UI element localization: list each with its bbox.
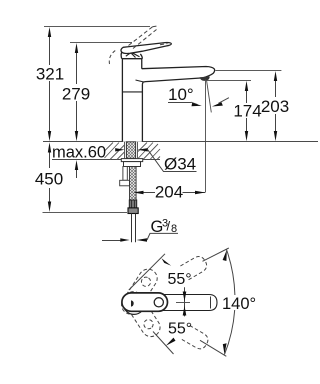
svg-text:55°: 55°: [168, 271, 192, 288]
dimension 174 vertical line: [246, 91, 248, 132]
dimension 204 line: [143, 192, 205, 194]
svg-text:140°: 140°: [222, 295, 256, 313]
connection tube: [132, 214, 136, 243]
140 arc top radial line: [203, 248, 229, 261]
dimension 203 arrows: [274, 71, 277, 141]
faucet body outline: [122, 59, 142, 142]
140 arc: [227, 250, 235, 296]
dimension 321 vertical line: [49, 36, 51, 132]
svg-text:450: 450: [35, 170, 63, 189]
140 arc bottom arrow: [223, 343, 227, 354]
counter hatching right: [138, 143, 160, 160]
dimension 203 vertical line: [275, 81, 277, 132]
hole edges: [124, 142, 137, 159]
hose end nut: [128, 208, 138, 214]
mounting stud: [123, 167, 127, 181]
top view: dashed handle rotated down 55: [121, 288, 164, 340]
svg-text:10°: 10°: [168, 85, 194, 104]
svg-text:279: 279: [62, 85, 90, 104]
top view: lever: [122, 293, 168, 311]
stud foot: [120, 180, 130, 186]
flexible hose: [130, 167, 137, 201]
dash near blade tip: [160, 44, 168, 45]
svg-text:Ø34: Ø34: [164, 154, 196, 173]
hose end extension line: [43, 212, 128, 214]
55 upper tangent line: [129, 254, 165, 290]
dimension 279 arrows: [75, 43, 78, 141]
water stream vertical extension line: [205, 80, 207, 193]
top view: spout tube inner cap line: [210, 297, 212, 309]
svg-text:204: 204: [155, 183, 183, 202]
10 deg leader left arrow: [191, 102, 198, 104]
mounting nut: [124, 162, 141, 167]
svg-text:174: 174: [233, 102, 261, 121]
dimension 174 arrows: [245, 81, 248, 141]
diameter 34 arrows: [115, 148, 148, 151]
counter hatching left: [105, 143, 125, 160]
top view: lever dome circle: [154, 298, 163, 307]
203 extension line from spout tip: [216, 70, 282, 72]
svg-text:55°: 55°: [168, 321, 192, 338]
140 arc top arrow: [223, 250, 227, 261]
faucet body fill: [122, 59, 214, 142]
spout outline: [142, 67, 215, 85]
faucet body joint line: [122, 91, 142, 93]
svg-text:8: 8: [171, 223, 177, 235]
140 arc bottom radial line: [200, 340, 226, 356]
top view: dashed spout end rotated up: [180, 254, 209, 280]
top view: spout tube: [140, 295, 217, 311]
dimension 450 arrows: [48, 142, 51, 212]
G 3/8 dimension arrows: [102, 240, 121, 242]
dimension 204 arrows: [133, 191, 205, 194]
dimension 279 vertical line: [76, 52, 78, 132]
svg-text:321: 321: [36, 65, 64, 84]
55 upper arrow: [162, 258, 172, 266]
top view: dashed handle rotated up 55: [118, 266, 161, 318]
hose end fitting: [129, 200, 136, 208]
counter top line: [43, 141, 318, 143]
55 lower tangent line: [153, 332, 174, 355]
svg-text:/: /: [167, 219, 171, 234]
spout bottom transition line: [136, 80, 144, 82]
55 vertical reference line with arrows: [184, 287, 186, 316]
dimension 279 top extension line: [70, 42, 132, 44]
55 lower arrow: [166, 338, 176, 346]
aerator: [200, 77, 210, 81]
mounting washer: [121, 159, 142, 162]
svg-text:203: 203: [261, 97, 289, 116]
diameter 34 leader: [148, 150, 197, 172]
top view: dashed spout end rotated down: [182, 325, 211, 351]
top view: body circle: [123, 293, 145, 315]
10 deg right arrow: [218, 98, 229, 104]
lever raised dashed: [129, 26, 158, 49]
shank through counter: [126, 142, 135, 159]
max.60 up arrow below counter: [75, 160, 78, 170]
top view: dark tick on body: [131, 300, 134, 306]
dimension 321 arrows: [48, 27, 51, 141]
lever cap dome: [121, 52, 142, 59]
svg-text:max.60: max.60: [52, 144, 106, 162]
dimension 321 top extension line: [44, 26, 150, 28]
dimension 450 vertical line: [49, 152, 51, 202]
174 extension line: [206, 80, 251, 82]
lever raised dashed arc at pivot: [109, 50, 116, 64]
spout centerline segment: [176, 302, 190, 304]
cartridge joint lines: [125, 48, 140, 57]
counter bottom line with max.60 underline: [52, 159, 160, 161]
lever blade: [121, 43, 171, 54]
water stream 10 deg slanted line: [207, 80, 212, 112]
